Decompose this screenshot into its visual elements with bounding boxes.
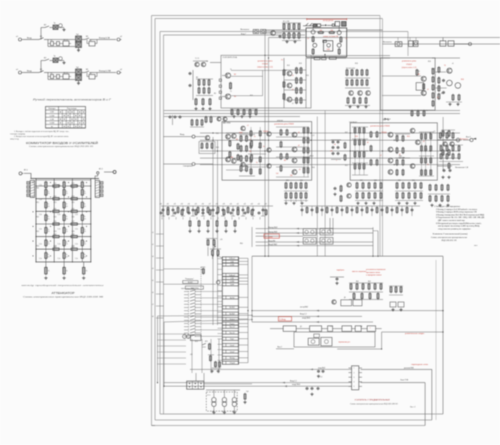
box B70: [222, 296, 238, 299]
wire W179: [410, 110, 428, 112]
resistor R167: [285, 193, 287, 198]
ground G39: [365, 105, 367, 107]
wire W219: [239, 175, 255, 177]
wire W203: [352, 138, 368, 140]
wire W451: [331, 206, 333, 216]
wire W358: [190, 290, 196, 292]
resistor R290: [298, 24, 300, 29]
box B50: [353, 300, 362, 306]
ground G50: [400, 308, 402, 310]
wire W247: [241, 215, 245, 217]
wire W423: [197, 381, 199, 389]
resistor R245: [359, 98, 361, 103]
resistor R259: [414, 193, 416, 198]
svg-text:п3: п3: [152, 256, 154, 258]
resistor R113: [359, 140, 361, 145]
wire W151: [310, 23, 313, 26]
ground G51: [286, 40, 288, 42]
wire W160: [222, 75, 225, 77]
wire W495: [218, 338, 223, 340]
wire W330: [225, 306, 227, 309]
svg-text:В4: В4: [90, 73, 92, 75]
resistor R174: [305, 183, 307, 188]
wire W113: [63, 246, 65, 250]
svg-text:550: 550: [331, 30, 334, 32]
svg-text:с9: с9: [334, 144, 336, 146]
box B33: [323, 40, 327, 42]
svg-text:R23: R23: [54, 231, 57, 233]
box B49: [341, 300, 352, 306]
svg-text:между приборной переходные: между приборной переходные элементы: [22, 284, 105, 287]
resistor R193: [217, 208, 219, 213]
wire W389: [184, 319, 189, 321]
wire W527: [206, 238, 217, 240]
wire W360: [201, 291, 222, 293]
wire W341: [239, 332, 249, 334]
resistor R51: [300, 98, 302, 103]
wire W195: [248, 166, 266, 168]
svg-text:с39: с39: [223, 204, 225, 206]
wire W510: [231, 217, 233, 220]
node N9: [97, 172, 99, 174]
wire W386: [190, 316, 196, 318]
box B18: [100, 190, 103, 193]
wire W355: [218, 256, 222, 258]
capacitor C38: [341, 209, 344, 211]
resistor R52: [283, 70, 285, 75]
wire W26: [41, 61, 45, 73]
svg-text:В2: В2: [44, 25, 46, 27]
resistor R240: [361, 80, 363, 85]
box B17: [100, 186, 103, 189]
svg-text:У3: У3: [330, 326, 332, 328]
resistor R288: [293, 24, 295, 29]
wire W175: [382, 95, 421, 97]
resistor R257: [408, 193, 410, 198]
wire W465: [282, 31, 301, 33]
wire W394: [196, 323, 202, 325]
wire W478: [156, 305, 164, 307]
transistor Q18: [292, 132, 297, 137]
wire W83: [36, 236, 91, 238]
wire W257: [439, 161, 463, 163]
transformer X1: [53, 25, 58, 30]
box B14: [27, 194, 30, 197]
wire W238: [202, 206, 204, 216]
wire W17: [78, 48, 80, 51]
svg-text:1,2к: 1,2к: [75, 185, 78, 187]
resistor R34: [45, 267, 48, 274]
svg-text:R2 C1: R2 C1: [64, 40, 69, 42]
box B82: [183, 281, 198, 284]
resistor R89: [259, 143, 261, 148]
wire W421: [218, 339, 220, 373]
wire W199: [276, 156, 309, 158]
wire W489: [218, 306, 223, 308]
box B9: [46, 107, 86, 129]
wire W396: [184, 326, 189, 328]
resistor R303: [251, 210, 253, 215]
ground G41: [241, 115, 243, 117]
transistor Q41: [366, 91, 371, 96]
wire W149: [303, 25, 313, 27]
wire W258: [437, 165, 452, 167]
resistor R47: [296, 98, 298, 103]
resistor R63: [209, 99, 211, 105]
wire W419: [201, 339, 203, 373]
wire W346: [225, 350, 227, 353]
wire W190: [384, 118, 386, 120]
wire W467: [275, 32, 282, 34]
wire W280: [349, 291, 383, 293]
svg-text:перемычка уст.: перемычка уст.: [338, 342, 350, 344]
wire W272: [372, 227, 374, 256]
ground G2: [78, 49, 80, 51]
wire W16: [82, 39, 86, 41]
svg-text:1,2к: 1,2к: [58, 243, 61, 245]
svg-text:с6: с6: [437, 97, 439, 99]
wire W11: [60, 43, 63, 45]
resistor R99: [307, 148, 309, 153]
wire W302: [349, 372, 352, 374]
wire W279: [349, 282, 383, 284]
ground G38: [357, 105, 359, 107]
resistor R64: [423, 84, 425, 89]
svg-text:R30: R30: [412, 180, 415, 182]
svg-text:а б в: а б в: [207, 395, 211, 397]
wire W522: [311, 55, 390, 57]
svg-text:У2004: У2004: [381, 132, 386, 134]
resistor R145: [442, 131, 444, 136]
resistor R1: [53, 185, 59, 187]
wire W531: [231, 75, 263, 77]
wire W39: [78, 81, 80, 84]
svg-text:с22: с22: [320, 377, 323, 379]
wire W281: [349, 299, 383, 301]
wire W74: [36, 179, 91, 181]
wire W239: [201, 215, 205, 217]
resistor R53: [283, 82, 285, 87]
wire W30: [48, 73, 75, 80]
resistor R251: [255, 110, 257, 115]
svg-text:R19: R19: [461, 79, 464, 81]
wire W494: [218, 333, 223, 335]
resistor R239: [361, 70, 363, 75]
wire W497: [218, 349, 223, 351]
wire W404: [190, 332, 196, 334]
svg-text:Тр2: Тр2: [360, 326, 363, 328]
svg-text:R25: R25: [286, 180, 289, 182]
svg-text:R31: R31: [216, 133, 219, 135]
transistor Q29: [443, 142, 447, 146]
wire W109: [81, 233, 83, 237]
resistor R230: [215, 362, 217, 367]
wire W543: [421, 132, 423, 176]
wire W308: [349, 385, 352, 387]
wire W183: [268, 38, 270, 257]
capacitor C3: [442, 79, 445, 81]
resistor R45: [296, 78, 298, 83]
box B36: [322, 57, 327, 59]
resistor R177: [356, 193, 358, 198]
wire W480: [218, 258, 223, 260]
node N34: [311, 340, 315, 344]
wire W442: [345, 87, 370, 89]
capacitor C49: [188, 212, 191, 214]
wire W79: [36, 185, 91, 187]
svg-text:с12: с12: [312, 135, 315, 137]
wire W514: [259, 217, 261, 220]
transformer X5: [76, 69, 82, 75]
svg-text:с40: с40: [230, 204, 232, 206]
svg-text:R62: R62: [368, 281, 371, 283]
svg-text:R21 R22 R23: R21 R22 R23: [346, 68, 355, 70]
capacitor C44: [401, 209, 404, 211]
svg-text:R71: R71: [205, 341, 208, 343]
box B24: [414, 41, 418, 47]
box B41: [222, 122, 312, 181]
resistor R215: [350, 284, 352, 289]
resistor R18: [81, 202, 83, 208]
node N24: [456, 138, 460, 142]
resistor R29: [63, 253, 65, 259]
wire W89: [63, 195, 65, 199]
resistor R165: [210, 117, 212, 122]
svg-text:300: 300: [290, 175, 293, 177]
wire W122: [45, 262, 47, 268]
wire W52: [61, 110, 63, 128]
resistor R27: [81, 240, 83, 246]
svg-text:В2: В2: [44, 58, 46, 60]
wire W432: [233, 390, 235, 398]
wire W275: [252, 255, 443, 257]
resistor R188: [167, 208, 169, 213]
wire W87: [45, 195, 47, 199]
ground G12: [457, 103, 459, 105]
svg-text:Вых 2: Вых 2: [277, 347, 282, 349]
resistor R17: [63, 202, 65, 208]
wire W156: [265, 29, 306, 31]
svg-text:с1: с1: [247, 125, 249, 127]
box B15: [95, 180, 99, 197]
ground G31: [217, 370, 219, 372]
resistor R35: [63, 267, 66, 274]
wire W98: [45, 211, 47, 215]
resistor R76: [458, 95, 460, 100]
wire W70: [95, 190, 99, 191]
wire W263: [225, 228, 227, 230]
wire W439: [158, 314, 253, 317]
wire W32: [54, 76, 57, 78]
svg-text:В3: В3: [86, 69, 88, 71]
wire W274: [373, 230, 378, 232]
resistor R238: [356, 80, 358, 85]
ground G11: [449, 103, 451, 105]
box B1: [51, 42, 54, 46]
svg-text:У1002: У1002: [406, 64, 413, 66]
svg-text:75: 75: [86, 271, 88, 273]
ground G37: [349, 105, 351, 107]
svg-text:Вх.ВЧ2: Вх.ВЧ2: [229, 314, 234, 316]
wire W14: [48, 39, 75, 41]
wire W211: [419, 175, 434, 177]
svg-text:R60: R60: [240, 243, 243, 245]
wire W112: [63, 237, 65, 241]
box B61: [314, 334, 320, 337]
svg-text:R2 C1: R2 C1: [64, 73, 69, 75]
wire W21: [95, 40, 97, 44]
svg-text:Схема электрическая принципиал: Схема электрическая принципиальная ИЦ2.2…: [29, 146, 94, 148]
box B45: [303, 229, 316, 236]
svg-text:п6: п6: [152, 292, 154, 294]
svg-text:Выход ВЧ1: Выход ВЧ1: [268, 231, 277, 233]
box B73: [222, 318, 238, 321]
svg-text:R9: R9: [214, 93, 216, 95]
svg-text:R52: R52: [345, 165, 348, 167]
wire W119: [63, 258, 65, 262]
svg-text:к7: к7: [380, 155, 382, 157]
box B66: [222, 273, 238, 276]
wire W53: [65, 110, 67, 128]
box B52: [283, 326, 296, 332]
wire W40: [85, 71, 89, 73]
svg-text:а2: а2: [120, 69, 122, 71]
svg-text:перекл. внутр. устан.: перекл. внутр. устан.: [181, 288, 195, 290]
svg-text:R70: R70: [195, 341, 198, 343]
wire W301: [359, 372, 362, 374]
box B7: [63, 74, 69, 79]
wire W82: [36, 223, 91, 225]
wire W204: [352, 150, 368, 152]
wire W448: [301, 206, 303, 216]
resistor R222: [361, 294, 363, 299]
svg-text:R8: R8: [196, 77, 198, 79]
svg-text:УСИЛИТЕЛЬ У ПРЕДВАРИТЕЛЬНЫЙ: УСИЛИТЕЛЬ У ПРЕДВАРИТЕЛЬНЫЙ: [355, 398, 391, 401]
transistor Q15: [267, 132, 271, 136]
resistor R250: [249, 110, 251, 115]
wire W472: [156, 233, 164, 235]
wire W185: [200, 132, 460, 134]
resistor R94: [303, 148, 305, 153]
ground G23: [198, 230, 200, 232]
wire W327: [239, 283, 249, 285]
wire W235: [181, 215, 185, 217]
svg-text:ДВГ замен соответствий пор: ДВГ замен соответствий пор: [438, 219, 466, 222]
ground G48: [447, 204, 449, 206]
resistor R247: [231, 110, 233, 115]
wire W91: [81, 195, 83, 199]
resistor R37: [312, 37, 314, 42]
wire W314: [225, 257, 227, 260]
wire W392: [184, 323, 189, 325]
svg-text:Т4: Т4: [418, 71, 420, 73]
wire W348: [225, 356, 227, 359]
svg-text:В4: В4: [90, 40, 92, 42]
svg-text:а2: а2: [120, 36, 122, 38]
resistor R302: [237, 210, 239, 215]
transistor Q7: [201, 62, 205, 66]
capacitor C45: [411, 209, 414, 211]
ground G43: [398, 202, 400, 204]
ground G29: [318, 375, 320, 377]
resistor R97: [307, 128, 309, 133]
box B11: [27, 182, 30, 185]
svg-text:1,2к: 1,2к: [39, 199, 42, 201]
node N27: [311, 230, 315, 234]
svg-text:R61: R61: [356, 281, 359, 283]
wire W152: [321, 24, 325, 26]
wire W56: [77, 110, 79, 128]
resistor R210: [198, 221, 200, 226]
wire W366: [196, 297, 202, 299]
wire W248: [252, 206, 254, 216]
wire W36: [48, 72, 75, 74]
wire W347: [239, 351, 249, 353]
wire W253: [442, 117, 444, 171]
resistor R223: [369, 294, 371, 299]
resistor R31: [45, 182, 47, 188]
capacitor C48: [174, 212, 177, 214]
wire W384: [196, 313, 202, 315]
wire W196: [276, 126, 309, 128]
capacitor C26: [443, 169, 446, 171]
wire W508: [217, 217, 219, 220]
transistor Q16: [267, 148, 271, 152]
box B26: [448, 41, 454, 46]
wire W261: [207, 228, 209, 230]
capacitor C37: [331, 209, 334, 211]
svg-text:усилитель узла У2003: усилитель узла У2003: [274, 124, 293, 126]
wire W191: [226, 132, 248, 134]
svg-text:Сеть2: Сеть2: [230, 351, 235, 353]
wire W403: [184, 332, 189, 334]
svg-text:К_Вход: К_Вход: [280, 319, 287, 321]
svg-text:1,2к: 1,2к: [58, 229, 61, 231]
resistor R81: [229, 152, 231, 157]
capacitor C12: [174, 116, 177, 118]
node N36: [216, 281, 220, 285]
wire W114: [81, 237, 83, 241]
resistor R275: [356, 208, 358, 213]
wire W208: [395, 157, 410, 159]
wire W299: [359, 367, 362, 369]
resistor R276: [366, 208, 368, 213]
wire W427: [213, 407, 215, 412]
wire W37: [74, 72, 77, 74]
ground G46: [431, 204, 433, 206]
resistor R123: [376, 132, 378, 137]
svg-text:R4: R4: [231, 157, 233, 159]
resistor R57: [208, 80, 210, 85]
svg-text:550: 550: [320, 30, 323, 32]
resistor R211: [207, 221, 209, 226]
resistor R244: [353, 98, 355, 103]
resistor R207: [458, 154, 460, 159]
resistor R236: [351, 80, 353, 85]
wire W536: [316, 117, 318, 257]
svg-text:R40: R40: [258, 147, 261, 149]
wire W455: [371, 206, 373, 216]
wire W33: [60, 76, 63, 78]
transistor Q24: [388, 158, 393, 163]
svg-text:лист: лист: [474, 245, 478, 247]
resistor R96: [303, 168, 305, 173]
capacitor C47: [160, 212, 163, 214]
wire W28: [50, 60, 54, 62]
wire W110: [45, 237, 47, 241]
resistor R125: [396, 136, 398, 141]
wire W246: [242, 206, 244, 216]
